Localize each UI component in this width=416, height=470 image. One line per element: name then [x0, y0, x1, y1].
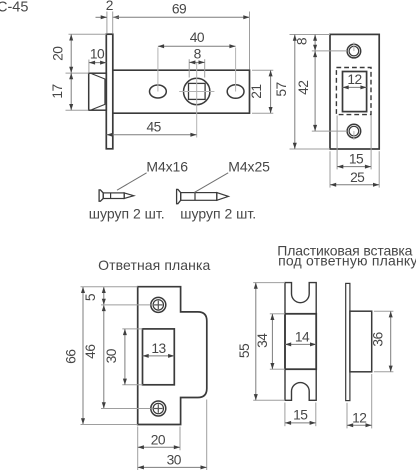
svg-text:15: 15	[293, 407, 308, 422]
screw hole top	[347, 44, 361, 58]
dim 8 (top to screw)	[290, 34, 331, 36]
svg-text:42: 42	[296, 81, 311, 95]
dim 55	[253, 282, 285, 284]
svg-text:M4x16: M4x16	[146, 159, 188, 175]
svg-text:12: 12	[347, 72, 361, 87]
svg-text:66: 66	[63, 349, 78, 364]
svg-text:20: 20	[151, 432, 166, 447]
dim 25 (plate width)	[329, 151, 331, 187]
latch bolt	[89, 73, 107, 110]
svg-text:под ответную планку: под ответную планку	[278, 253, 416, 269]
latch hole rect	[343, 72, 367, 112]
dim 57 (plate height)	[290, 148, 331, 150]
svg-text:12: 12	[352, 411, 366, 426]
dim 8 (square hole)	[188, 59, 190, 77]
svg-text:69: 69	[172, 1, 187, 16]
spindle hole circle	[184, 78, 210, 104]
screw M4x25 head	[177, 189, 181, 203]
strike latch hole	[143, 329, 175, 385]
dim 15 (opening width)	[336, 116, 338, 170]
strike screw hole top	[151, 297, 166, 312]
dim 46	[103, 305, 105, 409]
svg-text:46: 46	[83, 344, 98, 359]
svg-text:17: 17	[50, 84, 65, 98]
faceplate front view plate	[330, 34, 379, 149]
svg-text:Ответная планка: Ответная планка	[98, 257, 210, 273]
svg-text:45: 45	[146, 120, 161, 135]
screw hole bottom	[347, 124, 361, 138]
svg-text:шуруп 2 шт.: шуруп 2 шт.	[89, 205, 165, 221]
dim 42 (screw spacing)	[312, 50, 347, 52]
dim 66	[82, 287, 84, 425]
svg-text:С-45: С-45	[0, 0, 28, 16]
dim 36	[374, 310, 394, 312]
dim 69 (body length)	[113, 16, 250, 18]
svg-text:2: 2	[106, 0, 113, 13]
svg-text:25: 25	[350, 170, 365, 185]
screw M4x16 tip	[124, 193, 134, 199]
svg-text:30: 30	[104, 348, 119, 363]
dashed latch opening	[336, 68, 371, 115]
dim 17 (bolt height)	[66, 72, 89, 74]
faceplate side view	[106, 34, 113, 149]
svg-text:57: 57	[274, 82, 289, 96]
hole right (ellipse)	[227, 85, 244, 99]
svg-text:13: 13	[151, 341, 166, 356]
leader M4x25	[194, 173, 228, 193]
leader M4x16	[117, 173, 147, 190]
dim 5	[103, 287, 105, 305]
spindle square hole	[189, 83, 206, 99]
dim 13	[143, 355, 175, 357]
screw M4x25 thread line	[194, 193, 196, 201]
svg-text:15: 15	[349, 151, 364, 166]
strike screw hole bottom	[151, 401, 166, 416]
dim 20 (top to bolt)	[69, 33, 107, 35]
dim 14	[285, 343, 316, 345]
svg-text:40: 40	[190, 30, 205, 45]
centerline left hole	[157, 48, 159, 92]
svg-text:20: 20	[50, 46, 65, 61]
centerline horizontal through spindle	[179, 91, 214, 93]
dim 15 insert	[284, 403, 286, 427]
svg-text:36: 36	[371, 332, 386, 347]
screw M4x25 shank	[181, 193, 217, 201]
svg-text:10: 10	[90, 47, 105, 62]
hole left (ellipse)	[150, 85, 167, 98]
strike plate outline	[138, 287, 207, 425]
dim 45 (faceplate to spindle)	[107, 134, 197, 136]
insert side thin plate	[346, 283, 350, 400]
screw M4x16 head	[99, 190, 103, 201]
insert middle box	[285, 314, 316, 369]
dim 10 (bolt width)	[88, 60, 90, 73]
svg-text:55: 55	[237, 343, 252, 358]
dim 30 bottom	[206, 400, 208, 470]
svg-text:шуруп 2 шт.: шуруп 2 шт.	[180, 205, 256, 221]
dim 40 (hole spacing)	[158, 45, 236, 47]
dim 34	[270, 313, 285, 315]
centerline vertical through spindle	[196, 63, 198, 138]
dim 20	[137, 427, 139, 470]
svg-text:5: 5	[83, 293, 98, 301]
svg-text:34: 34	[255, 333, 270, 348]
insert body	[285, 283, 316, 401]
svg-text:M4x25: M4x25	[228, 159, 270, 175]
screw M4x16 thread line	[110, 193, 112, 199]
insert side box	[350, 311, 372, 372]
centerline right hole	[235, 48, 237, 92]
svg-text:8: 8	[295, 37, 310, 45]
dim 12 insert side	[346, 403, 348, 429]
svg-text:21: 21	[249, 84, 264, 98]
dim 21 (body height)	[252, 69, 273, 71]
svg-text:30: 30	[167, 452, 182, 467]
svg-text:14: 14	[295, 329, 310, 344]
lock body	[113, 70, 250, 113]
screw M4x16 shank	[103, 193, 124, 199]
screw M4x25 tip	[217, 193, 229, 201]
ext lines strike left	[81, 286, 138, 288]
dim 2 (faceplate thickness)	[106, 12, 108, 34]
dim 12 (latch hole width)	[343, 86, 367, 88]
dim 30 vertical	[122, 328, 142, 330]
svg-text:8: 8	[194, 47, 202, 62]
